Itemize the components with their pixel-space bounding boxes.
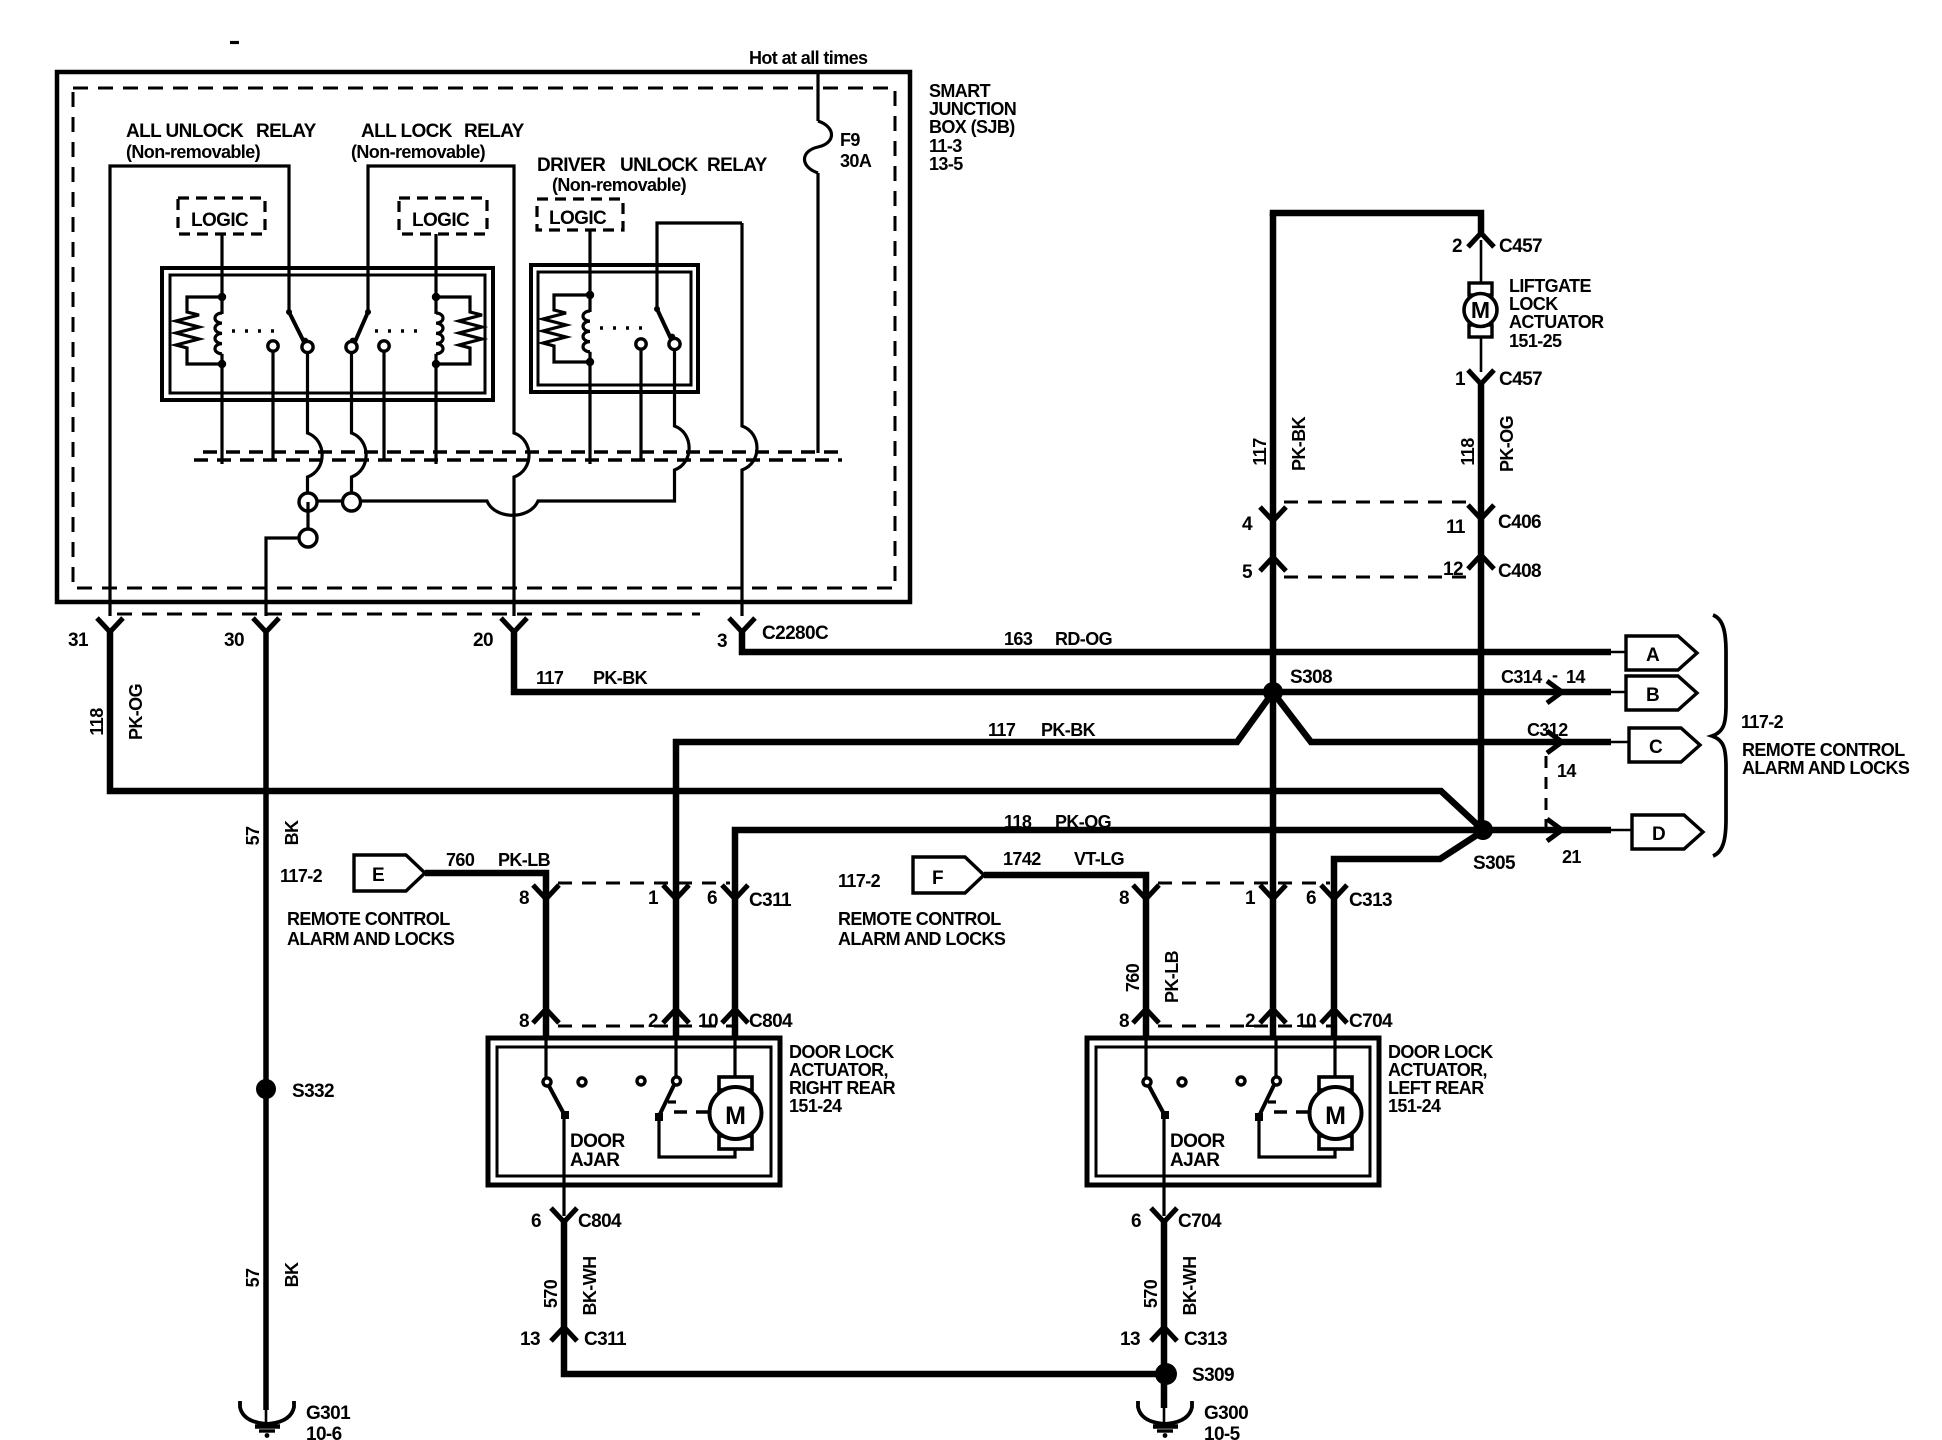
connector C bbox=[1609, 728, 1700, 762]
label: DOOR AJAR (right rear) bbox=[570, 1131, 625, 1171]
relay 1 switch (pivot, blade, contact) bbox=[286, 309, 313, 353]
door lock actuator left rear case (double box) bbox=[1087, 1038, 1379, 1185]
left rear lock switch dashed link to motor bbox=[1274, 1110, 1310, 1114]
pin 13 arrow C313 bottom bbox=[1120, 1327, 1227, 1350]
svg-text:2: 2 bbox=[1452, 236, 1462, 257]
svg-text:11: 11 bbox=[1446, 517, 1466, 538]
wire: ring C left and down to pin 30 bbox=[266, 538, 299, 616]
svg-text:C: C bbox=[1649, 737, 1663, 758]
svg-text:D: D bbox=[1652, 824, 1665, 845]
right rear door ajar switch bbox=[543, 1038, 569, 1119]
svg-text:PK-BK: PK-BK bbox=[1289, 416, 1309, 471]
liftgate lock actuator motor M bbox=[1464, 283, 1497, 337]
svg-text:118: 118 bbox=[1458, 438, 1478, 466]
splice ring C bbox=[299, 529, 317, 547]
wire: logic 2 output to relay 2 coil bbox=[434, 234, 437, 297]
pin 8 arrow C311 bbox=[519, 885, 559, 909]
driver relay coil (with junction dots) bbox=[583, 291, 594, 464]
svg-text:PK-OG: PK-OG bbox=[1497, 416, 1517, 472]
svg-text:DRIVER: DRIVER bbox=[537, 155, 606, 176]
svg-text:1: 1 bbox=[1245, 888, 1256, 909]
relay case for DRIVER UNLOCK relay (double box) bbox=[531, 265, 698, 392]
svg-text:C704: C704 bbox=[1178, 1211, 1222, 1232]
svg-text:M: M bbox=[725, 1102, 746, 1130]
smart junction box inner dashed boundary bbox=[73, 88, 895, 588]
wire 57 BK: pin 30 down to ground G301 bbox=[263, 629, 269, 1410]
relay 2 coil (with junction dots) bbox=[432, 293, 443, 464]
svg-text:Hot at all times: Hot at all times bbox=[749, 48, 868, 68]
pin 10 arrow C804 bbox=[698, 1009, 793, 1032]
svg-text:12: 12 bbox=[1443, 559, 1463, 580]
label: 57 BK (lower, above G301) bbox=[243, 1262, 302, 1287]
svg-text:M: M bbox=[1325, 1102, 1346, 1130]
splice ring B (relay2 output) bbox=[343, 493, 361, 511]
svg-text:S332: S332 bbox=[292, 1081, 334, 1102]
svg-text:20: 20 bbox=[473, 630, 493, 651]
label: 118 PK-OG (vertical, liftgate leg) bbox=[1458, 416, 1517, 472]
svg-text:117: 117 bbox=[1250, 438, 1270, 466]
connector B bbox=[1609, 676, 1697, 710]
connector arrow C312 on C wire bbox=[1527, 720, 1568, 753]
svg-text:DOOR: DOOR bbox=[570, 1131, 625, 1152]
svg-text:C704: C704 bbox=[1349, 1011, 1393, 1032]
svg-text:117-2: 117-2 bbox=[280, 866, 323, 886]
svg-text:C311: C311 bbox=[584, 1329, 627, 1350]
pin 5 arrow C408 bbox=[1242, 557, 1286, 583]
svg-text:PK-BK: PK-BK bbox=[1041, 720, 1096, 740]
label: REMOTE CONTROL ALARM AND LOCKS (F) bbox=[838, 909, 1006, 949]
svg-text:BK: BK bbox=[282, 1262, 302, 1287]
wire: pin 3 leg through bus down to connector bbox=[742, 223, 757, 616]
wire: logic 3 output to driver relay coil bbox=[588, 230, 591, 295]
svg-text:ALL UNLOCK: ALL UNLOCK bbox=[126, 121, 244, 142]
wire 118 PK-OG: liftgate to S305 bbox=[1478, 381, 1485, 830]
svg-text:163: 163 bbox=[1004, 629, 1033, 649]
splice S305 bbox=[1473, 820, 1516, 874]
svg-text:21: 21 bbox=[1562, 847, 1581, 867]
pin 13 arrow C311 bottom bbox=[520, 1327, 627, 1350]
brace grouping connectors A-D bbox=[1712, 615, 1726, 856]
driver relay switch (pivot, blade, contact) bbox=[654, 306, 680, 350]
svg-text:DOOR: DOOR bbox=[1170, 1131, 1225, 1152]
svg-text:F: F bbox=[932, 868, 943, 889]
svg-text:C311: C311 bbox=[749, 890, 792, 911]
ground G300 bbox=[1138, 1401, 1248, 1440]
splice S332 bbox=[256, 1079, 334, 1102]
svg-text:6: 6 bbox=[531, 1211, 541, 1232]
left rear door contact rings bbox=[1178, 1077, 1245, 1086]
smart junction box SJB outer case bbox=[57, 72, 910, 602]
svg-text:C313: C313 bbox=[1349, 890, 1392, 911]
svg-text:LOGIC: LOGIC bbox=[549, 208, 607, 229]
svg-text:8: 8 bbox=[519, 888, 529, 909]
svg-text:BK-WH: BK-WH bbox=[1180, 1257, 1200, 1316]
svg-text:760: 760 bbox=[1123, 963, 1143, 992]
svg-text:PK-LB: PK-LB bbox=[1162, 950, 1182, 1003]
splice ring A (relay1 output) bbox=[299, 493, 317, 511]
pin 3 arrow / connector C2280C bbox=[717, 618, 829, 652]
svg-text:PK-OG: PK-OG bbox=[1055, 812, 1111, 832]
svg-text:ACTUATOR,: ACTUATOR, bbox=[789, 1060, 888, 1080]
svg-text:S305: S305 bbox=[1473, 853, 1516, 874]
connector E bbox=[280, 855, 425, 891]
relay 2 switch (pivot, blade, contact) bbox=[346, 309, 371, 353]
svg-text:AJAR: AJAR bbox=[570, 1150, 620, 1171]
wire: ring A down to ring C bbox=[306, 502, 309, 538]
pin 1 arrow C311 bbox=[648, 885, 689, 909]
svg-text:BK-WH: BK-WH bbox=[580, 1257, 600, 1316]
pin 4 arrow C406 bbox=[1242, 507, 1286, 535]
label: 760 PK-LB bbox=[446, 850, 551, 870]
wire 570 BK-WH: left rear door to S309 bbox=[1161, 1219, 1168, 1374]
svg-text:S309: S309 bbox=[1192, 1365, 1234, 1386]
svg-text:1742: 1742 bbox=[1003, 849, 1041, 869]
SJB bottom connector dashed strip bbox=[117, 613, 700, 616]
svg-text:ALARM AND LOCKS: ALARM AND LOCKS bbox=[287, 929, 455, 949]
right rear door motor M bbox=[710, 1038, 762, 1149]
svg-text:C804: C804 bbox=[578, 1211, 622, 1232]
label: 570 BK-WH (right) bbox=[1141, 1257, 1200, 1316]
svg-text:LIFTGATE: LIFTGATE bbox=[1509, 276, 1591, 296]
label: 117 PK-BK (C run) bbox=[988, 720, 1096, 740]
svg-text:31: 31 bbox=[68, 630, 89, 651]
in-line connector C311 (dashed strip) bbox=[558, 882, 730, 885]
wire: battery feed from box top to fuse F9 bbox=[816, 74, 819, 121]
svg-text:G301: G301 bbox=[306, 1403, 351, 1424]
in-line connector C408 (dashed) bbox=[1284, 576, 1470, 579]
svg-text:BOX (SJB): BOX (SJB) bbox=[929, 117, 1015, 137]
svg-text:760: 760 bbox=[446, 850, 475, 870]
svg-text:S308: S308 bbox=[1290, 667, 1332, 688]
svg-text:G300: G300 bbox=[1204, 1403, 1248, 1424]
svg-text:B: B bbox=[1646, 685, 1659, 706]
svg-text:2: 2 bbox=[1245, 1011, 1255, 1032]
wire: left rear door ajar switch to pin 6 C704 bbox=[1162, 1114, 1165, 1216]
logic module 2 (dashed) bbox=[399, 198, 487, 234]
relay 2 NO contact bbox=[379, 341, 389, 461]
svg-text:F9: F9 bbox=[840, 130, 860, 150]
label: 118 PK-OG (D run) bbox=[1004, 812, 1111, 832]
svg-text:2: 2 bbox=[648, 1011, 658, 1032]
label: 163 RD-OG bbox=[1004, 629, 1112, 649]
svg-text:C457: C457 bbox=[1499, 369, 1542, 390]
splice S308 bbox=[1263, 667, 1332, 702]
svg-text:117: 117 bbox=[988, 720, 1016, 740]
svg-text:PK-LB: PK-LB bbox=[498, 850, 551, 870]
svg-text:(Non-removable): (Non-removable) bbox=[351, 142, 486, 162]
wire 118 PK-OG: corner run through S305 to connector D bbox=[735, 830, 1611, 1040]
svg-text:REMOTE CONTROL: REMOTE CONTROL bbox=[287, 909, 450, 929]
wire 1742 VT-LG: connector F to left rear door pin 8 bbox=[984, 875, 1146, 1040]
wire: liftgate motor to C457 pin 1 bbox=[1480, 337, 1483, 372]
label: 760 PK-LB (vertical, left rear leg) bbox=[1123, 950, 1182, 1003]
connector D bbox=[1609, 815, 1703, 849]
svg-text:57: 57 bbox=[243, 826, 263, 845]
svg-text:10: 10 bbox=[1296, 1011, 1316, 1032]
svg-text:10-5: 10-5 bbox=[1204, 1424, 1241, 1440]
svg-text:RD-OG: RD-OG bbox=[1055, 629, 1112, 649]
svg-text:C804: C804 bbox=[749, 1011, 793, 1032]
svg-text:118: 118 bbox=[1004, 812, 1032, 832]
driver relay resistor (parallel with coil) bbox=[543, 295, 590, 362]
svg-text:ALARM AND LOCKS: ALARM AND LOCKS bbox=[1742, 758, 1910, 778]
label: LIFTGATE LOCK ACTUATOR 151-25 bbox=[1509, 276, 1604, 351]
svg-text:117-2: 117-2 bbox=[838, 871, 881, 891]
svg-text:LOGIC: LOGIC bbox=[191, 210, 249, 231]
svg-text:1: 1 bbox=[648, 888, 659, 909]
svg-text:151-24: 151-24 bbox=[789, 1096, 842, 1116]
right rear lock switch bbox=[655, 1038, 681, 1121]
pin 1 arrow C313 bbox=[1245, 885, 1286, 909]
svg-text:LOCK: LOCK bbox=[1509, 294, 1558, 314]
label: Hot at all times bbox=[749, 48, 868, 68]
svg-text:3: 3 bbox=[717, 631, 727, 652]
pin 8 arrow C704 bbox=[1119, 1009, 1159, 1032]
svg-text:REMOTE CONTROL: REMOTE CONTROL bbox=[1742, 740, 1905, 760]
label: 57 BK (upper, vertical at pin 30) bbox=[243, 820, 302, 845]
wire: right rear door ajar switch to pin 6 C804 bbox=[562, 1114, 565, 1216]
svg-text:C313: C313 bbox=[1184, 1329, 1227, 1350]
driver relay NO contact bbox=[636, 339, 646, 461]
svg-text:14: 14 bbox=[1557, 761, 1576, 781]
svg-text:57: 57 bbox=[243, 1268, 263, 1287]
svg-text:118: 118 bbox=[87, 708, 107, 736]
pin 2 arrow C704 bbox=[1245, 1009, 1286, 1032]
label: ALL LOCK RELAY (Non-removable) bbox=[351, 121, 525, 162]
wire 117 PK-BK: pin 20 across through S308 to connector B bbox=[514, 629, 1611, 692]
driver relay actuation dotted link bbox=[600, 326, 648, 330]
svg-text:RELAY: RELAY bbox=[464, 121, 525, 142]
dashed connector link C312 pin 14 bbox=[1546, 756, 1576, 828]
pin 20 arrow bbox=[473, 618, 527, 651]
wire 118 PK-OG: S305 diagonal down to left rear door run bbox=[1334, 833, 1480, 1040]
svg-text:PK-BK: PK-BK bbox=[593, 668, 648, 688]
svg-text:AJAR: AJAR bbox=[1170, 1150, 1220, 1171]
svg-text:ACTUATOR: ACTUATOR bbox=[1509, 312, 1604, 332]
pin 11 arrow C406 bbox=[1446, 505, 1541, 538]
wire: C457 pin 2 to liftgate motor bbox=[1480, 240, 1483, 285]
svg-text:30A: 30A bbox=[840, 151, 872, 171]
svg-text:BK: BK bbox=[282, 820, 302, 845]
svg-text:4: 4 bbox=[1242, 514, 1253, 535]
wire 163 RD-OG: pin 3 across to connector A bbox=[742, 629, 1611, 652]
svg-text:SMART: SMART bbox=[929, 81, 991, 101]
svg-text:VT-LG: VT-LG bbox=[1074, 849, 1124, 869]
svg-text:E: E bbox=[372, 865, 384, 886]
svg-text:8: 8 bbox=[519, 1011, 529, 1032]
svg-text:(Non-removable): (Non-removable) bbox=[126, 142, 261, 162]
svg-text:JUNCTION: JUNCTION bbox=[929, 99, 1016, 119]
label: ALL UNLOCK RELAY (Non-removable) bbox=[126, 121, 317, 162]
label: 118 PK-OG (vertical at pin 31) bbox=[87, 684, 146, 740]
relay ALL UNLOCK outline (open rectangle, left leg runs to pin 31, right leg to switch pivot) bbox=[110, 166, 289, 616]
pin 6 arrow C311 bbox=[707, 885, 792, 911]
right rear lock switch dashed link to motor bbox=[674, 1110, 710, 1114]
label: DOOR LOCK ACTUATOR, RIGHT REAR 151-24 bbox=[789, 1042, 896, 1116]
connector F bbox=[838, 857, 984, 893]
label: 570 BK-WH (left) bbox=[541, 1257, 600, 1316]
svg-text:M: M bbox=[1471, 297, 1490, 323]
svg-text:10: 10 bbox=[698, 1011, 718, 1032]
svg-text:5: 5 bbox=[1242, 562, 1253, 583]
connector arrow pin 21 on D wire bbox=[1547, 819, 1581, 867]
svg-text:C457: C457 bbox=[1499, 236, 1542, 257]
svg-text:DOOR LOCK: DOOR LOCK bbox=[1388, 1042, 1493, 1062]
wire 570 BK-WH: right rear door to S309 bbox=[564, 1219, 1166, 1374]
svg-text:8: 8 bbox=[1119, 888, 1129, 909]
svg-text:151-25: 151-25 bbox=[1509, 331, 1562, 351]
door lock actuator right rear case (double box) bbox=[488, 1038, 780, 1185]
svg-text:C312: C312 bbox=[1527, 720, 1568, 740]
svg-text:1: 1 bbox=[1455, 369, 1466, 390]
relay 2 resistor (parallel with coil) bbox=[436, 297, 482, 364]
pin 30 arrow bbox=[224, 618, 279, 651]
svg-text:UNLOCK: UNLOCK bbox=[620, 155, 699, 176]
label: DOOR AJAR (left rear) bbox=[1170, 1131, 1225, 1171]
svg-text:LEFT REAR: LEFT REAR bbox=[1388, 1078, 1484, 1098]
pin 6 arrow C704 bottom bbox=[1131, 1208, 1222, 1232]
label: DRIVER UNLOCK RELAY (Non-removable) bbox=[537, 155, 768, 195]
label: SMART JUNCTION BOX (SJB) 11-3 13-5 bbox=[929, 81, 1016, 174]
in-line connector C313 (dashed strip) bbox=[1158, 882, 1330, 885]
pin 6 arrow C313 bbox=[1306, 885, 1392, 911]
svg-text:117: 117 bbox=[536, 668, 564, 688]
wire: driver relay switch common up and over to pin 3 leg bbox=[657, 223, 742, 309]
wire 760 PK-LB: connector E to right rear door pin 8 bbox=[425, 873, 546, 1040]
wire 117 PK-BK: S308 diagonal to connector C bbox=[1275, 695, 1611, 742]
wire: liftgate feed top run (117 PK-BK / 118 PK-OG) bbox=[1273, 213, 1481, 236]
svg-text:DOOR LOCK: DOOR LOCK bbox=[789, 1042, 894, 1062]
right rear door contact rings bbox=[578, 1077, 645, 1086]
label: 117 PK-BK (B run) bbox=[536, 668, 648, 688]
wire: logic 1 output to relay 1 coil bbox=[220, 234, 223, 297]
svg-text:570: 570 bbox=[541, 1279, 561, 1308]
left rear door ajar switch bbox=[1143, 1038, 1169, 1119]
label: DOOR LOCK ACTUATOR, LEFT REAR 151-24 bbox=[1388, 1042, 1493, 1116]
connector A bbox=[1609, 636, 1697, 670]
svg-text:570: 570 bbox=[1141, 1279, 1161, 1308]
ground G301 bbox=[240, 1401, 351, 1440]
pin 10 arrow C704 bbox=[1296, 1009, 1393, 1032]
splice S309 bbox=[1155, 1363, 1234, 1386]
svg-text:A: A bbox=[1646, 645, 1660, 666]
svg-text:RIGHT REAR: RIGHT REAR bbox=[789, 1078, 896, 1098]
svg-text:REMOTE CONTROL: REMOTE CONTROL bbox=[838, 909, 1001, 929]
svg-text:10-6: 10-6 bbox=[306, 1424, 342, 1440]
svg-text:C314: C314 bbox=[1501, 667, 1542, 687]
wire: relay 2 switch output through bus to splice ring B bbox=[352, 353, 367, 495]
svg-text:LOGIC: LOGIC bbox=[412, 210, 470, 231]
in-line connector C406 (dashed) bbox=[1284, 501, 1470, 504]
relay 1 coil (with junction dots) bbox=[215, 293, 226, 464]
svg-text:8: 8 bbox=[1119, 1011, 1129, 1032]
svg-text:-: - bbox=[1552, 665, 1558, 685]
pin 8 arrow C313 bbox=[1119, 885, 1159, 909]
svg-text:C2280C: C2280C bbox=[762, 623, 829, 644]
label: 117 PK-BK (vertical) bbox=[1250, 416, 1309, 471]
wire 118 PK-OG: pin 31 down, across to S305 bbox=[110, 629, 1483, 830]
connector arrow C314-14 on B wire bbox=[1501, 665, 1585, 703]
relay ALL LOCK outline (open rectangle, right leg runs through bus to pin 20) bbox=[368, 166, 529, 616]
svg-text:117-2: 117-2 bbox=[1741, 712, 1784, 732]
svg-text:PK-OG: PK-OG bbox=[126, 684, 146, 740]
svg-text:(Non-removable): (Non-removable) bbox=[552, 175, 687, 195]
svg-text:13-5: 13-5 bbox=[929, 154, 963, 174]
left rear door motor M bbox=[1310, 1038, 1362, 1149]
svg-text:ALL LOCK: ALL LOCK bbox=[361, 121, 453, 142]
svg-text:C408: C408 bbox=[1498, 561, 1541, 582]
wire 117 PK-BK: S308 diagonal down to C run and to right rear door bbox=[676, 695, 1271, 1040]
wire: fuse F9 to SJB internal bus bbox=[816, 173, 819, 453]
pin 1 arrow / connector C457 bottom bbox=[1455, 369, 1542, 390]
svg-text:RELAY: RELAY bbox=[256, 121, 317, 142]
svg-text:RELAY: RELAY bbox=[707, 155, 768, 176]
pin 2 arrow / connector C457 top bbox=[1452, 233, 1542, 257]
in-line connector C804 (dashed strip) bbox=[558, 1025, 736, 1028]
left rear lock switch bbox=[1255, 1038, 1281, 1121]
relay 2 actuation dotted link bbox=[375, 329, 426, 333]
svg-text:11-3: 11-3 bbox=[929, 136, 962, 156]
SJB internal bus (staggered double dashed line) bbox=[194, 452, 842, 460]
label: REMOTE CONTROL ALARM AND LOCKS (E) bbox=[287, 909, 455, 949]
svg-text:6: 6 bbox=[707, 888, 717, 909]
pin 2 arrow C804 bbox=[648, 1009, 689, 1032]
wire: left rear lock switch to motor bottom bbox=[1259, 1119, 1335, 1157]
svg-text:151-24: 151-24 bbox=[1388, 1096, 1441, 1116]
svg-text:13: 13 bbox=[520, 1329, 540, 1350]
svg-text:6: 6 bbox=[1131, 1211, 1141, 1232]
svg-text:C406: C406 bbox=[1498, 512, 1541, 533]
wire: relay 1 switch output through bus to splice ring A bbox=[308, 353, 323, 495]
pin 12 arrow C408 bbox=[1443, 555, 1541, 582]
stray scan mark bbox=[230, 41, 239, 44]
svg-text:30: 30 bbox=[224, 630, 244, 651]
relay 1 NO contact bbox=[268, 341, 278, 461]
relay case for ALL UNLOCK + ALL LOCK relays (double box) bbox=[162, 268, 493, 400]
pin 31 arrow bbox=[68, 618, 123, 651]
logic module 1 (dashed) bbox=[178, 198, 265, 234]
wire: S309 to ground G300 bbox=[1161, 1374, 1168, 1408]
label: 117-2 REMOTE CONTROL ALARM AND LOCKS (right) bbox=[1741, 712, 1910, 778]
pin 6 arrow C804 bottom bbox=[531, 1208, 622, 1232]
wire: driver relay switch output through bus, corner to internal run bbox=[308, 350, 689, 516]
svg-text:6: 6 bbox=[1306, 888, 1316, 909]
svg-text:13: 13 bbox=[1120, 1329, 1140, 1350]
wire 117 PK-BK: SJB top run down to S308 bbox=[1270, 213, 1277, 1040]
svg-text:ALARM AND LOCKS: ALARM AND LOCKS bbox=[838, 929, 1006, 949]
svg-text:ACTUATOR,: ACTUATOR, bbox=[1388, 1060, 1487, 1080]
wire: right rear lock switch to motor bottom bbox=[659, 1119, 735, 1157]
svg-text:14: 14 bbox=[1566, 667, 1585, 687]
in-line connector C704 (dashed strip) bbox=[1158, 1025, 1336, 1028]
relay 1 resistor (parallel with coil) bbox=[176, 297, 222, 364]
logic module 3 (dashed) bbox=[537, 199, 623, 230]
pin 8 arrow C804 bbox=[519, 1009, 559, 1032]
relay 1 actuation dotted link bbox=[232, 329, 283, 333]
fuse F9 30A bbox=[805, 121, 872, 173]
label: 1742 VT-LG bbox=[1003, 849, 1124, 869]
